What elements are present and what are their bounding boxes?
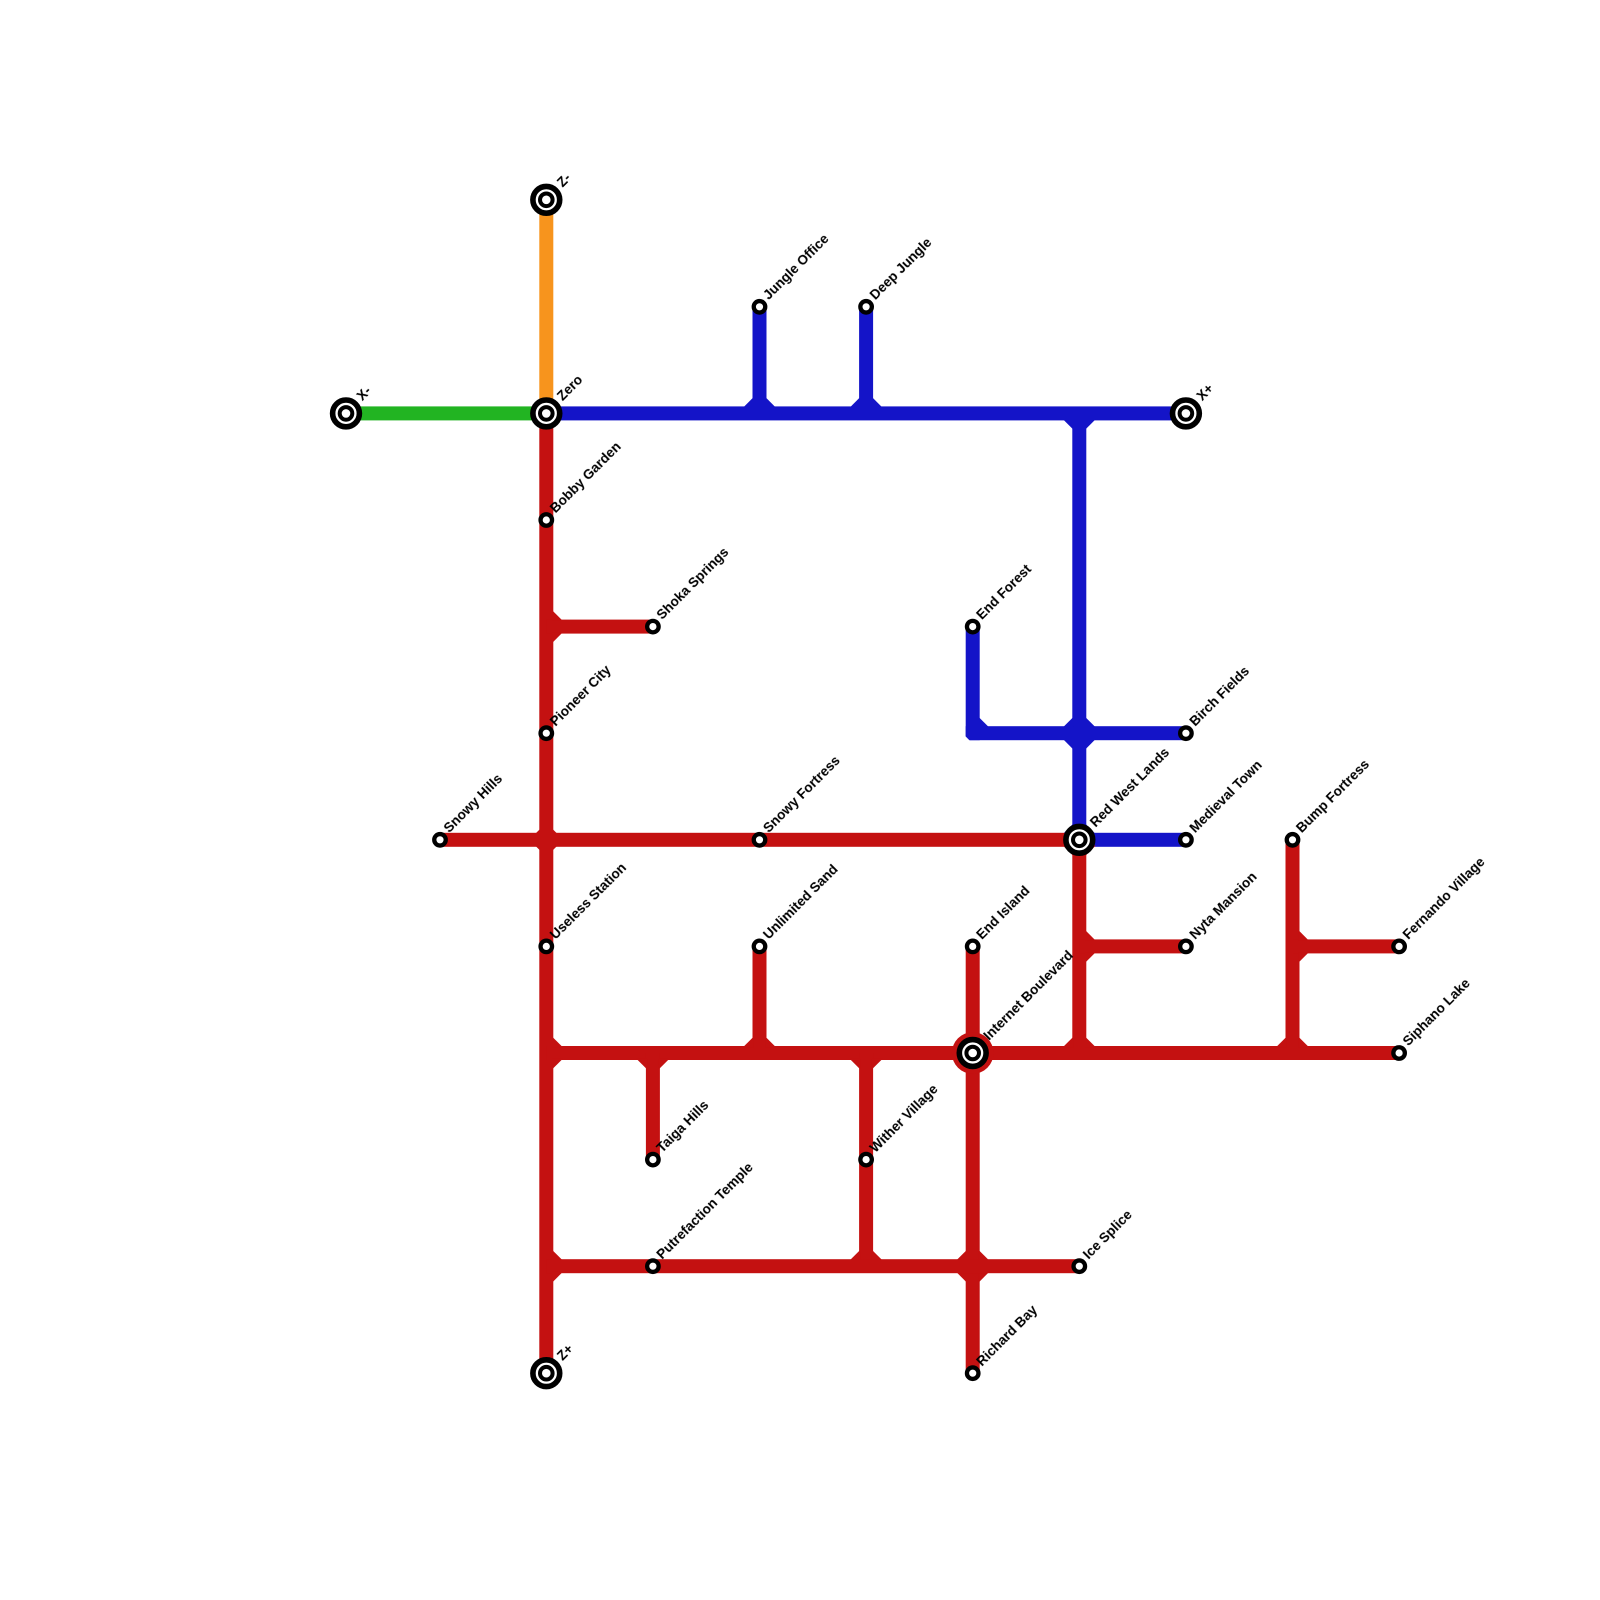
red row6 line to Siphano Lake <box>546 1046 1399 1060</box>
4-way junction diamond red cross row4 <box>529 823 563 857</box>
junction fillets row6 start at main vertical <box>552 1037 563 1048</box>
station Siphano Lake <box>1393 1047 1405 1059</box>
station Putrefaction Temple <box>647 1260 659 1272</box>
label Deep Jungle <box>867 234 935 302</box>
interchange/terminal station Z+ <box>533 1360 560 1387</box>
red row8 line to Ice Splice <box>546 1259 1079 1273</box>
red End Island - Richard Bay vertical <box>966 946 980 1373</box>
junction fillets Fernando Village branch <box>1298 930 1309 941</box>
red branch to Shoka Springs <box>546 620 653 634</box>
station Jungle Office <box>754 301 766 313</box>
interchange/terminal station X+ <box>1173 400 1200 427</box>
junction fillets Taiga Hills branch <box>636 1059 647 1070</box>
junction fillets Bump line end at row6 <box>1276 1037 1287 1048</box>
red branch down to Taiga Hills <box>646 1053 660 1160</box>
label Bump Fortress <box>1293 757 1372 836</box>
label Birch Fields <box>1187 663 1253 729</box>
station End Island <box>967 941 979 953</box>
red vertical Red West Lands to row6 <box>1072 840 1086 1053</box>
red branch to Nyta Mansion <box>1079 939 1186 953</box>
station End Forest <box>967 621 979 633</box>
station Unlimited Sand <box>754 941 766 953</box>
station Deep Jungle <box>860 301 872 313</box>
station Taiga Hills <box>647 1154 659 1166</box>
station Shoka Springs <box>647 621 659 633</box>
label End Island <box>973 883 1032 942</box>
station Fernando Village <box>1393 941 1405 953</box>
junction fillets red vertical at row6 end <box>1063 1037 1074 1048</box>
label Richard Bay <box>973 1302 1040 1369</box>
junction fillets Unlimited Sand at row6 <box>743 1037 754 1048</box>
blue branch to Deep Jungle <box>859 307 873 414</box>
junction fillets Wither line at row6 <box>850 1059 861 1070</box>
label Red West Lands <box>1087 745 1172 830</box>
station Nyta Mansion <box>1180 941 1192 953</box>
interchange/terminal station Internet Boulevard <box>959 1040 986 1067</box>
label Jungle Office <box>760 231 832 303</box>
green line X- to Zero <box>346 406 546 420</box>
junction fillets Jungle Office branch <box>743 397 754 408</box>
junction fillets Nyta Mansion branch <box>1085 930 1096 941</box>
label X- <box>354 383 374 403</box>
interchange/terminal station X- <box>333 400 360 427</box>
label Wither Village <box>867 1081 941 1155</box>
label X+ <box>1194 381 1217 404</box>
blue line Red West Lands to Medieval Town <box>1079 833 1186 847</box>
station Snowy Hills <box>434 834 446 846</box>
red row4 line Snowy Hills to Red West Lands <box>440 833 1079 847</box>
station Useless Station <box>541 941 553 953</box>
blue End Forest line bend corner <box>978 717 989 728</box>
label Unlimited Sand <box>760 862 841 943</box>
station Bump Fortress <box>1287 834 1299 846</box>
station Birch Fields <box>1180 727 1192 739</box>
junction fillets Shoka Springs branch <box>552 610 563 621</box>
station Ice Splice <box>1074 1260 1086 1272</box>
label Zero <box>554 372 585 403</box>
blue main line Zero to X+ <box>546 406 1186 420</box>
junction fillets at Red West Lands blue <box>1063 823 1074 834</box>
red Bump Fortress vertical <box>1286 840 1300 1053</box>
station Pioneer City <box>541 727 553 739</box>
label Useless Station <box>547 860 629 942</box>
junction fillets row8 start at main vertical <box>552 1250 563 1261</box>
junction fillets Wither line end at row8 <box>850 1250 861 1261</box>
junction fillets Deep Jungle branch <box>850 397 861 408</box>
interchange/terminal station Red West Lands <box>1066 826 1093 853</box>
outer corner chamfer End Forest bend <box>965 736 970 741</box>
4-way junction fillets End Island vertical at row8 <box>956 1250 967 1261</box>
interchange/terminal station Z- <box>533 186 560 213</box>
4-way junction fillets blue cross row3 <box>1063 717 1074 728</box>
junction fillets blue vertical at main blue line <box>1063 419 1074 430</box>
label Fernando Village <box>1400 854 1488 942</box>
backing disc at Internet Boulevard <box>952 1032 994 1074</box>
red main vertical line Zero to Z+ <box>539 413 553 1373</box>
blue vertical line to Red West Lands <box>1072 413 1086 839</box>
orange line Z- to Zero <box>539 200 553 414</box>
junction fillets at Red West Lands red <box>1063 846 1074 857</box>
label Putrefaction Temple <box>654 1159 757 1262</box>
label Internet Boulevard <box>980 948 1076 1044</box>
label Snowy Fortress <box>760 753 843 836</box>
label Snowy Hills <box>441 771 506 836</box>
station Medieval Town <box>1180 834 1192 846</box>
station Wither Village <box>860 1154 872 1166</box>
label Nyta Mansion <box>1187 869 1260 942</box>
label Shoka Springs <box>654 544 732 622</box>
label Medieval Town <box>1187 757 1265 835</box>
label End Forest <box>973 561 1034 622</box>
label Pioneer City <box>547 662 614 729</box>
label Z+ <box>554 1341 576 1363</box>
red branch down Wither Village line <box>859 1053 873 1266</box>
label Taiga Hills <box>654 1097 712 1155</box>
red branch from Unlimited Sand <box>753 946 767 1053</box>
label Siphano Lake <box>1400 975 1473 1048</box>
blue End Forest branch vertical <box>966 627 980 741</box>
station Bobby Garden <box>541 514 553 526</box>
label Bobby Garden <box>547 439 624 516</box>
label Z- <box>554 170 574 190</box>
station Richard Bay <box>967 1367 979 1379</box>
interchange/terminal station Zero <box>533 400 560 427</box>
red branch to Fernando Village <box>1293 939 1400 953</box>
blue branch to Jungle Office <box>753 307 767 414</box>
blue row3 line to Birch Fields <box>966 726 1186 740</box>
label Ice Splice <box>1080 1207 1135 1262</box>
station Snowy Fortress <box>754 834 766 846</box>
